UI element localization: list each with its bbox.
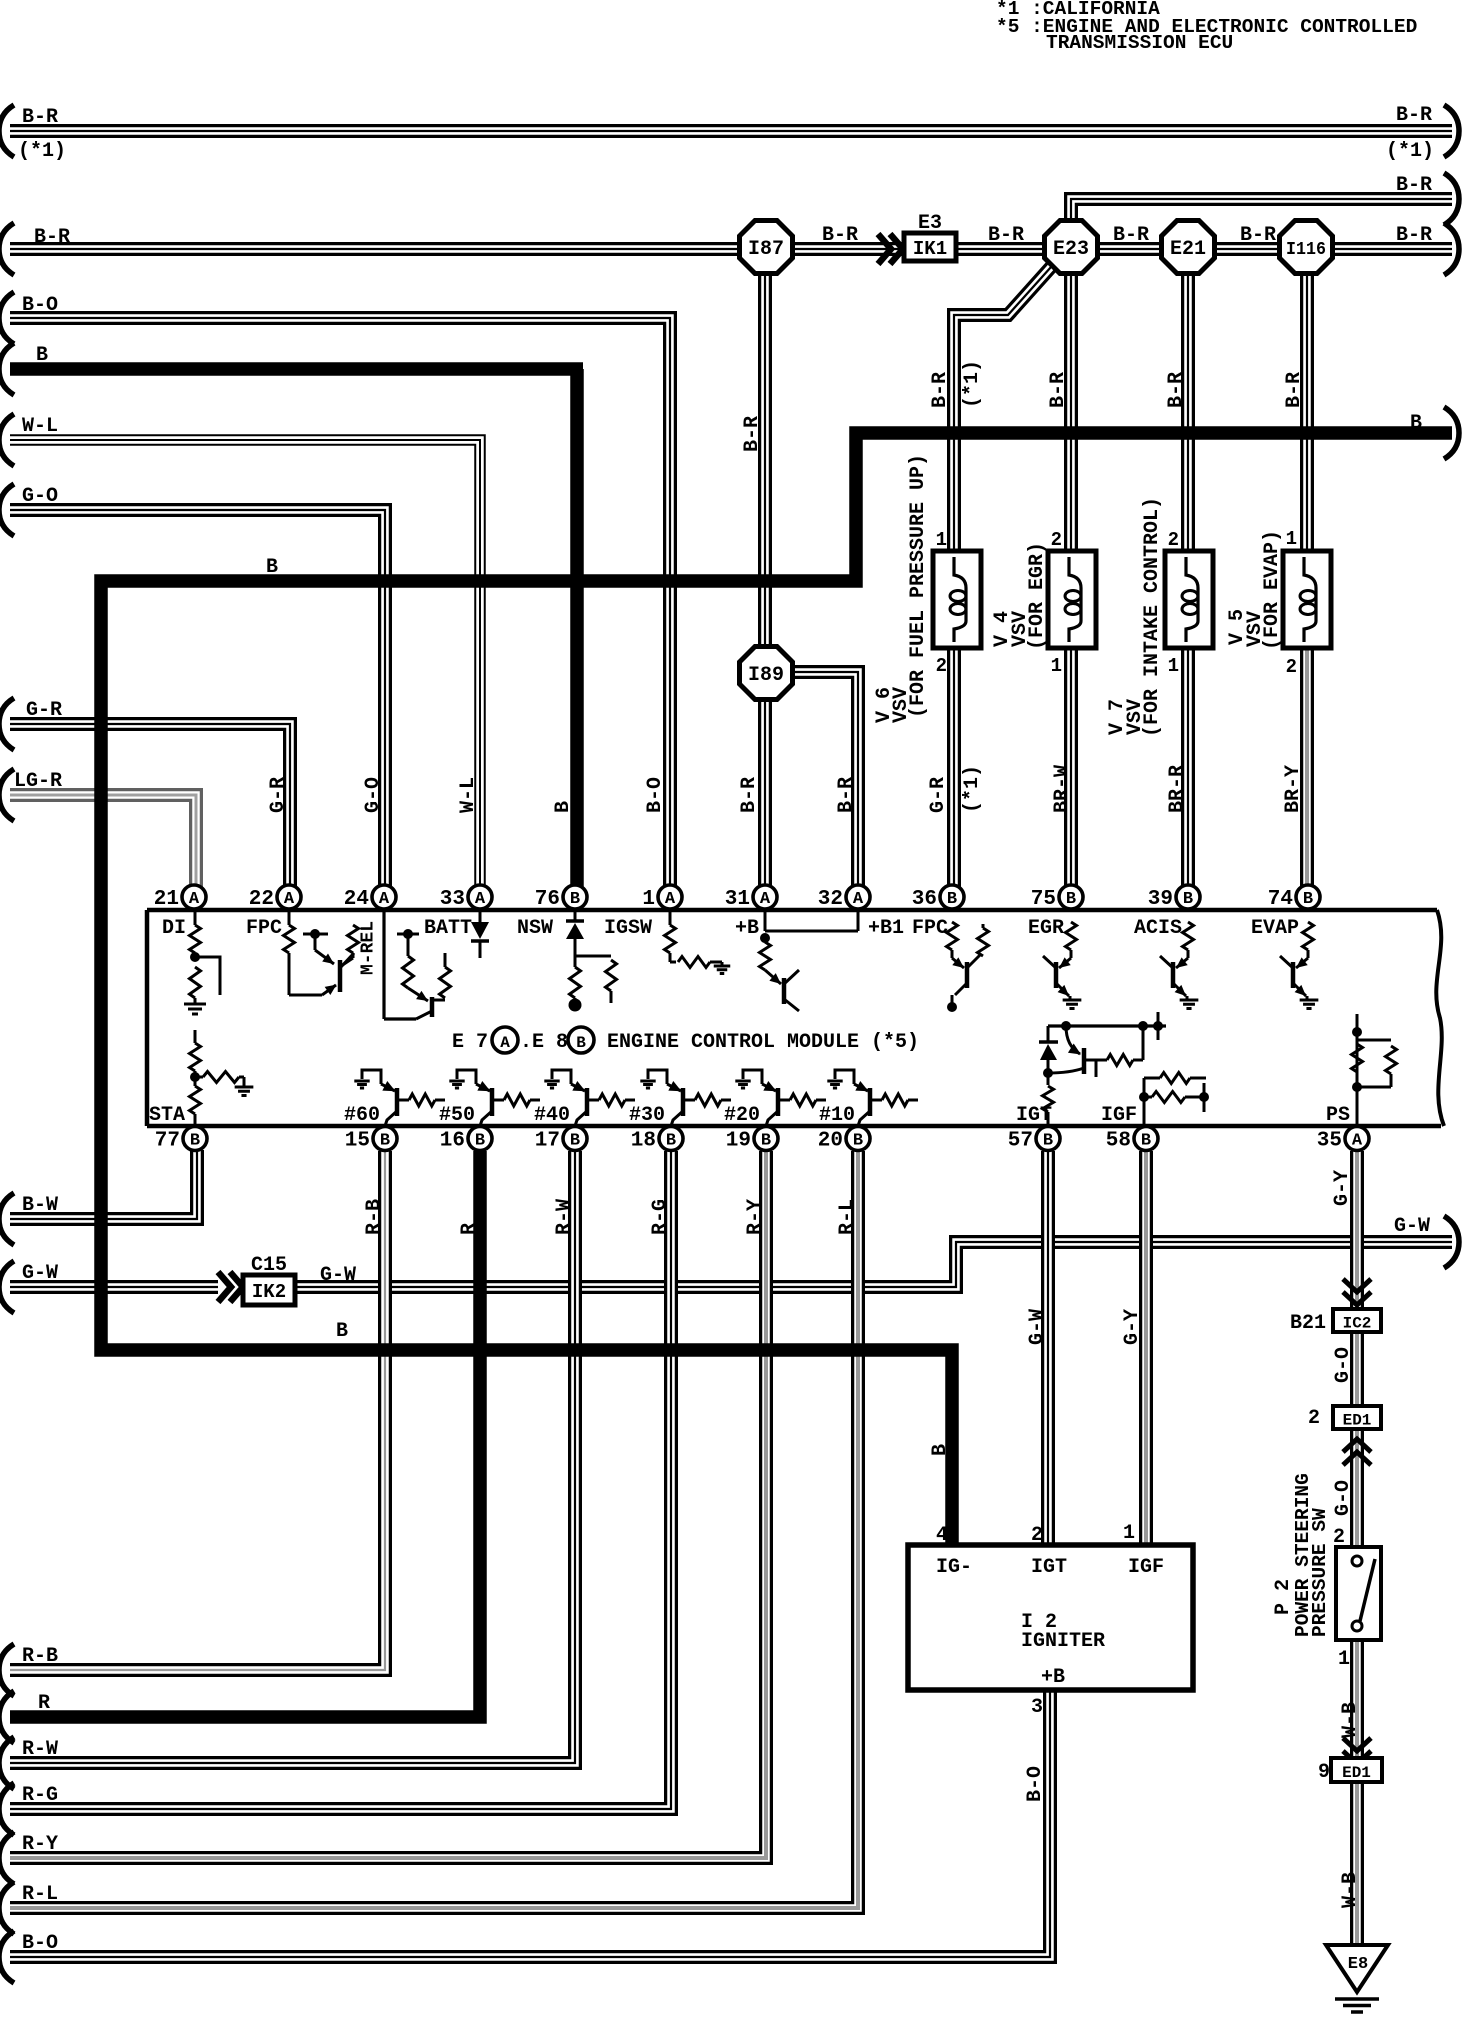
- svg-text:B-O: B-O: [22, 294, 58, 317]
- svg-text:31: 31: [725, 888, 750, 911]
- svg-text:1: 1: [1286, 528, 1297, 550]
- svg-text:A: A: [284, 890, 295, 909]
- svg-text:R-W: R-W: [553, 1199, 576, 1235]
- svg-text:(*1): (*1): [1386, 140, 1434, 163]
- svg-text:20: 20: [818, 1130, 843, 1153]
- svg-text:B: B: [761, 1132, 771, 1151]
- svg-text:#40: #40: [534, 1104, 570, 1127]
- svg-text:ENGINE CONTROL MODULE (*5): ENGINE CONTROL MODULE (*5): [607, 1031, 919, 1054]
- svg-text:77: 77: [155, 1130, 180, 1153]
- svg-text:(FOR INTAKE CONTROL): (FOR INTAKE CONTROL): [1141, 497, 1164, 737]
- svg-text:PRESSURE SW: PRESSURE SW: [1309, 1508, 1331, 1637]
- svg-text:15: 15: [345, 1130, 370, 1153]
- svg-text:32: 32: [818, 888, 843, 911]
- svg-text:B: B: [1183, 890, 1193, 909]
- svg-text:B: B: [266, 556, 278, 579]
- svg-text:I89: I89: [748, 664, 784, 687]
- svg-text:B-R: B-R: [1396, 224, 1432, 247]
- svg-text:PS: PS: [1326, 1104, 1350, 1127]
- svg-text:+B: +B: [735, 917, 759, 940]
- svg-text:21: 21: [154, 888, 179, 911]
- svg-text:IC2: IC2: [1343, 1315, 1372, 1333]
- svg-text:#60: #60: [344, 1104, 380, 1127]
- svg-text:ACIS: ACIS: [1134, 917, 1182, 940]
- svg-text:.E 8: .E 8: [520, 1031, 568, 1054]
- svg-text:9: 9: [1318, 1761, 1330, 1784]
- svg-text:2: 2: [1051, 529, 1062, 551]
- svg-text:B-R: B-R: [835, 777, 858, 813]
- svg-text:R-L: R-L: [836, 1199, 859, 1235]
- svg-text:#50: #50: [439, 1104, 475, 1127]
- svg-text:B: B: [475, 1132, 485, 1151]
- svg-text:A: A: [665, 890, 676, 909]
- svg-text:A: A: [1352, 1132, 1363, 1151]
- svg-text:24: 24: [344, 888, 369, 911]
- svg-text:R-B: R-B: [363, 1199, 386, 1235]
- svg-text:36: 36: [912, 888, 937, 911]
- svg-text:+B: +B: [1041, 1666, 1065, 1689]
- svg-text:W-L: W-L: [22, 415, 58, 438]
- svg-text:M-REL: M-REL: [358, 921, 378, 975]
- svg-text:(*1): (*1): [18, 140, 66, 163]
- svg-text:R-W: R-W: [22, 1738, 58, 1761]
- svg-text:B: B: [1043, 1132, 1053, 1151]
- svg-text:LG-R: LG-R: [14, 770, 62, 793]
- svg-text:G-W: G-W: [22, 1262, 58, 1285]
- svg-text:R: R: [38, 1692, 50, 1715]
- svg-text:IG-: IG-: [936, 1556, 972, 1579]
- svg-text:B-O: B-O: [1024, 1766, 1047, 1802]
- svg-text:#20: #20: [724, 1104, 760, 1127]
- svg-text:W-B: W-B: [1339, 1702, 1362, 1738]
- svg-text:IGT: IGT: [1031, 1556, 1067, 1579]
- svg-text:B: B: [666, 1132, 676, 1151]
- svg-text:IGNITER: IGNITER: [1021, 1630, 1105, 1653]
- svg-text:STA: STA: [149, 1104, 185, 1127]
- svg-text:R-Y: R-Y: [744, 1199, 767, 1235]
- svg-text:18: 18: [631, 1130, 656, 1153]
- svg-text:IK2: IK2: [252, 1281, 286, 1303]
- svg-text:1: 1: [1123, 1522, 1135, 1545]
- svg-text:B: B: [570, 890, 580, 909]
- svg-text:R: R: [458, 1223, 481, 1235]
- svg-text:BR-R: BR-R: [1166, 765, 1189, 813]
- svg-text:1: 1: [642, 888, 655, 911]
- svg-text:FPC: FPC: [246, 917, 282, 940]
- svg-text:IGSW: IGSW: [604, 917, 652, 940]
- svg-text:B-O: B-O: [644, 777, 667, 813]
- svg-text:B-O: B-O: [22, 1932, 58, 1955]
- svg-text:A: A: [760, 890, 771, 909]
- svg-text:B-R: B-R: [1283, 372, 1306, 408]
- svg-text:R-G: R-G: [22, 1784, 58, 1807]
- svg-text:W-B: W-B: [1339, 1872, 1362, 1908]
- svg-text:ED1: ED1: [1342, 1764, 1371, 1782]
- svg-text:B: B: [552, 801, 575, 813]
- svg-text:G-W: G-W: [1394, 1215, 1430, 1238]
- svg-text:G-O: G-O: [362, 777, 385, 813]
- svg-text:EVAP: EVAP: [1251, 917, 1299, 940]
- svg-text:B-R: B-R: [1240, 224, 1276, 247]
- svg-text:75: 75: [1031, 888, 1056, 911]
- svg-text:B: B: [1141, 1132, 1151, 1151]
- svg-text:E3: E3: [918, 212, 942, 235]
- svg-text:ED1: ED1: [1343, 1412, 1372, 1430]
- svg-text:(*1): (*1): [961, 765, 984, 813]
- svg-text:58: 58: [1106, 1130, 1131, 1153]
- svg-text:2: 2: [1286, 656, 1297, 678]
- svg-text:R-Y: R-Y: [22, 1833, 58, 1856]
- svg-text:A: A: [379, 890, 390, 909]
- svg-text:BR-W: BR-W: [1051, 765, 1074, 813]
- svg-text:B: B: [576, 1034, 586, 1052]
- svg-text:B-R: B-R: [738, 777, 761, 813]
- svg-text:74: 74: [1268, 888, 1293, 911]
- svg-text:39: 39: [1148, 888, 1173, 911]
- svg-text:B-W: B-W: [22, 1194, 58, 1217]
- svg-text:B: B: [36, 344, 48, 367]
- svg-text:B: B: [190, 1132, 200, 1151]
- svg-text:#30: #30: [629, 1104, 665, 1127]
- svg-text:IGT: IGT: [1016, 1104, 1052, 1127]
- svg-text:B-R: B-R: [1396, 174, 1432, 197]
- svg-text:+B1: +B1: [868, 917, 904, 940]
- svg-text:(FOR EGR): (FOR EGR): [1026, 542, 1049, 650]
- svg-text:G-W: G-W: [1026, 1309, 1049, 1345]
- svg-text:E23: E23: [1053, 238, 1089, 261]
- svg-text:2: 2: [936, 655, 947, 677]
- svg-text:1: 1: [1168, 655, 1179, 677]
- svg-text:BR-Y: BR-Y: [1282, 765, 1305, 813]
- svg-text:G-R: G-R: [927, 777, 950, 813]
- svg-text:17: 17: [535, 1130, 560, 1153]
- svg-text:G-Y: G-Y: [1331, 1170, 1354, 1206]
- svg-text:B: B: [853, 1132, 863, 1151]
- svg-text:16: 16: [440, 1130, 465, 1153]
- svg-text:C15: C15: [251, 1254, 287, 1277]
- svg-text:BATT: BATT: [424, 917, 472, 940]
- svg-text:B: B: [929, 1444, 952, 1456]
- svg-text:B: B: [570, 1132, 580, 1151]
- svg-text:B-R: B-R: [1396, 104, 1432, 127]
- svg-text:IK1: IK1: [913, 238, 947, 260]
- svg-text:G-O: G-O: [22, 485, 58, 508]
- svg-text:G-O: G-O: [1332, 1347, 1355, 1383]
- svg-text:B: B: [1410, 412, 1422, 435]
- svg-text:B-R: B-R: [988, 224, 1024, 247]
- svg-text:R-B: R-B: [22, 1645, 58, 1668]
- svg-text:EGR: EGR: [1028, 917, 1064, 940]
- svg-text:R-L: R-L: [22, 1883, 58, 1906]
- svg-text:E21: E21: [1170, 238, 1206, 261]
- svg-text:2: 2: [1308, 1407, 1320, 1430]
- svg-text:E8: E8: [1348, 1955, 1368, 1974]
- svg-text:FPC: FPC: [912, 917, 948, 940]
- svg-text:(FOR EVAP): (FOR EVAP): [1261, 530, 1284, 650]
- svg-text:B: B: [947, 890, 957, 909]
- svg-text:#10: #10: [819, 1104, 855, 1127]
- svg-text:A: A: [475, 890, 486, 909]
- svg-text:R-G: R-G: [649, 1199, 672, 1235]
- svg-text:B-R: B-R: [1165, 372, 1188, 408]
- svg-text:W-L: W-L: [457, 777, 480, 813]
- svg-text:35: 35: [1317, 1130, 1342, 1153]
- svg-text:(*1): (*1): [961, 360, 984, 408]
- svg-text:TRANSMISSION ECU: TRANSMISSION ECU: [1046, 32, 1233, 54]
- svg-text:4: 4: [936, 1524, 948, 1547]
- svg-text:33: 33: [440, 888, 465, 911]
- svg-text:3: 3: [1031, 1696, 1043, 1719]
- svg-text:B-R: B-R: [822, 224, 858, 247]
- svg-text:I87: I87: [748, 238, 784, 261]
- svg-text:B: B: [336, 1320, 348, 1343]
- svg-text:2: 2: [1031, 1524, 1043, 1547]
- svg-text:NSW: NSW: [517, 917, 553, 940]
- svg-text:B-R: B-R: [1113, 224, 1149, 247]
- svg-text:(FOR FUEL PRESSURE UP): (FOR FUEL PRESSURE UP): [907, 454, 930, 718]
- svg-text:1: 1: [936, 529, 947, 551]
- svg-text:B-R: B-R: [1047, 372, 1070, 408]
- svg-text:G-O: G-O: [1332, 1480, 1355, 1516]
- svg-text:G-R: G-R: [26, 699, 62, 722]
- svg-text:I116: I116: [1286, 240, 1326, 260]
- svg-text:G-R: G-R: [267, 777, 290, 813]
- svg-text:B-R: B-R: [741, 416, 764, 452]
- svg-text:B21: B21: [1290, 1312, 1326, 1335]
- svg-text:1: 1: [1051, 655, 1062, 677]
- svg-text:A: A: [853, 890, 864, 909]
- svg-text:B-R: B-R: [929, 372, 952, 408]
- svg-text:22: 22: [249, 888, 274, 911]
- svg-text:2: 2: [1333, 1526, 1345, 1549]
- svg-text:A: A: [500, 1034, 510, 1052]
- svg-text:IGF: IGF: [1128, 1556, 1164, 1579]
- svg-text:B-R: B-R: [22, 106, 58, 129]
- svg-text:B: B: [1303, 890, 1313, 909]
- svg-text:G-W: G-W: [320, 1264, 356, 1287]
- svg-text:1: 1: [1338, 1648, 1350, 1671]
- svg-text:B: B: [380, 1132, 390, 1151]
- svg-text:A: A: [189, 890, 200, 909]
- svg-text:19: 19: [726, 1130, 751, 1153]
- svg-text:DI: DI: [162, 917, 186, 940]
- svg-text:B-R: B-R: [34, 226, 70, 249]
- svg-text:G-Y: G-Y: [1121, 1309, 1144, 1345]
- svg-text:57: 57: [1008, 1130, 1033, 1153]
- svg-text:IGF: IGF: [1101, 1104, 1137, 1127]
- svg-text:E 7: E 7: [452, 1031, 488, 1054]
- svg-text:76: 76: [535, 888, 560, 911]
- svg-text:2: 2: [1168, 529, 1179, 551]
- svg-text:B: B: [1066, 890, 1076, 909]
